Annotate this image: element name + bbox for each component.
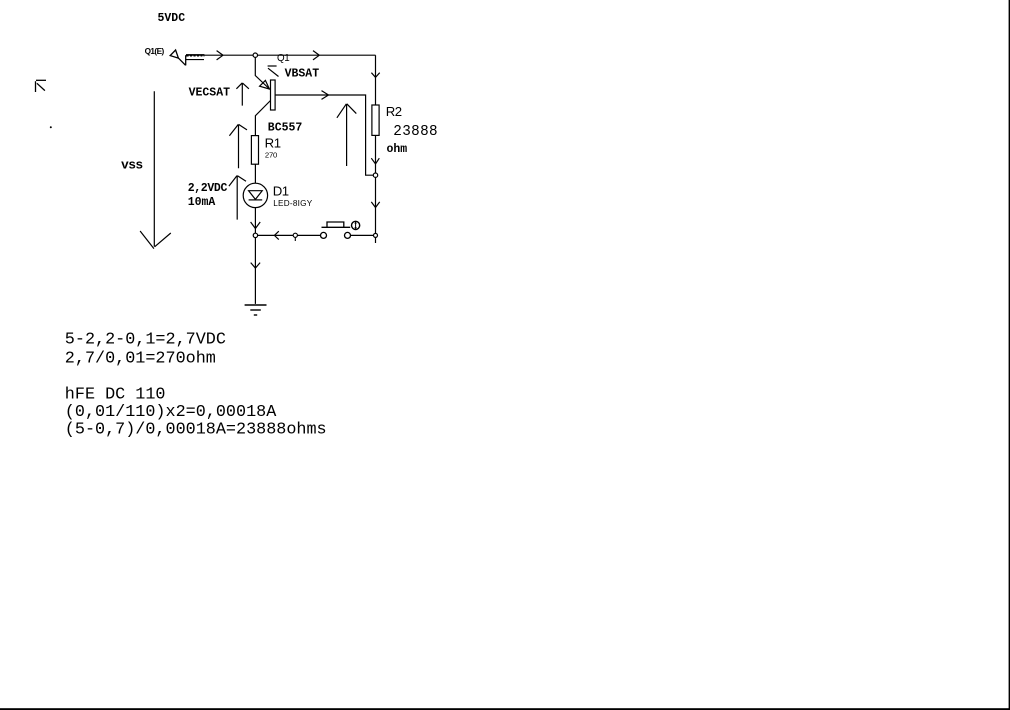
switch S1 actuator xyxy=(322,222,351,227)
wire D1 to ground node xyxy=(254,208,256,304)
current arrow right long xyxy=(337,104,356,166)
resistor R2 xyxy=(372,105,379,135)
svg-text:D1: D1 xyxy=(273,183,289,198)
wire arrow on base xyxy=(322,91,329,100)
wire collector xyxy=(255,101,270,136)
switch S1 contact left xyxy=(321,232,327,238)
wire R1 to D1 xyxy=(254,164,256,183)
wire arrow on bottom wire xyxy=(275,231,279,239)
svg-text:10mA: 10mA xyxy=(188,196,216,209)
stray dot xyxy=(50,126,52,128)
wire arrow chevron above ground xyxy=(251,263,260,269)
wire arrow chevron below R2 xyxy=(371,158,379,164)
svg-text:2,7/0,01=270ohm: 2,7/0,01=270ohm xyxy=(65,349,216,368)
wire emitter from node xyxy=(255,57,269,89)
wire bottom right segment xyxy=(351,234,376,236)
wire top rail xyxy=(186,54,376,56)
node junction below R2 xyxy=(373,173,377,177)
VBSAT cursor mark xyxy=(268,66,279,77)
svg-text:Q1: Q1 xyxy=(277,53,289,64)
svg-text:VECSAT: VECSAT xyxy=(189,86,231,99)
transistor Q1 emitter arrow xyxy=(260,80,270,89)
svg-text:(5-0,7)/0,00018A=23888ohms: (5-0,7)/0,00018A=23888ohms xyxy=(65,421,327,440)
svg-text:R2: R2 xyxy=(386,104,402,119)
svg-text:(0,01/110)x2=0,00018A: (0,01/110)x2=0,00018A xyxy=(65,403,277,422)
wire arrow chevron below D1 xyxy=(251,222,261,229)
node junction bottom-right xyxy=(374,233,378,237)
svg-text:2,2VDC: 2,2VDC xyxy=(188,182,228,195)
vss arrow xyxy=(140,91,171,248)
svg-text:BC557: BC557 xyxy=(268,122,303,135)
current arrow left of R1 xyxy=(229,124,247,168)
resistor R1 xyxy=(251,136,258,165)
current arrow left of D1 xyxy=(229,176,246,220)
current probe at wire start xyxy=(170,50,204,65)
cursor mark top-left xyxy=(36,80,47,92)
connector pin on bottom wire xyxy=(293,233,297,237)
svg-text:23888: 23888 xyxy=(393,124,438,140)
node junction bottom-left xyxy=(253,233,257,237)
switch key symbol xyxy=(352,221,360,229)
wire arrow on top rail left xyxy=(217,51,223,60)
LED D1 xyxy=(243,183,267,207)
wire bottom left segment xyxy=(258,234,321,236)
transistor Q1 bar BC557 xyxy=(271,80,276,110)
svg-text:R1: R1 xyxy=(265,135,281,150)
svg-text:hFE DC 110: hFE DC 110 xyxy=(65,386,166,405)
svg-text:270: 270 xyxy=(265,150,277,159)
wire arrow on top rail right xyxy=(313,51,319,60)
node junction at top xyxy=(253,53,257,57)
switch S1 contact right xyxy=(345,232,351,238)
window bottom border xyxy=(0,708,1010,710)
wire arrow chevron above R2 xyxy=(371,73,379,78)
svg-text:vss: vss xyxy=(121,157,143,172)
svg-text:5-2,2-0,1=2,7VDC: 5-2,2-0,1=2,7VDC xyxy=(65,330,226,349)
window right border xyxy=(1009,0,1010,710)
svg-text:VBSAT: VBSAT xyxy=(285,67,320,80)
wire arrow chevron above bottom node xyxy=(371,202,379,208)
svg-text:ohm: ohm xyxy=(387,143,408,156)
wire base xyxy=(275,95,373,175)
VECSAT arrow xyxy=(236,83,249,106)
svg-text:5VDC: 5VDC xyxy=(158,12,186,25)
ground xyxy=(245,305,267,315)
svg-text:LED-8IGY: LED-8IGY xyxy=(273,199,313,208)
svg-text:Q1(E): Q1(E) xyxy=(145,47,165,56)
wire right vertical xyxy=(375,55,377,243)
